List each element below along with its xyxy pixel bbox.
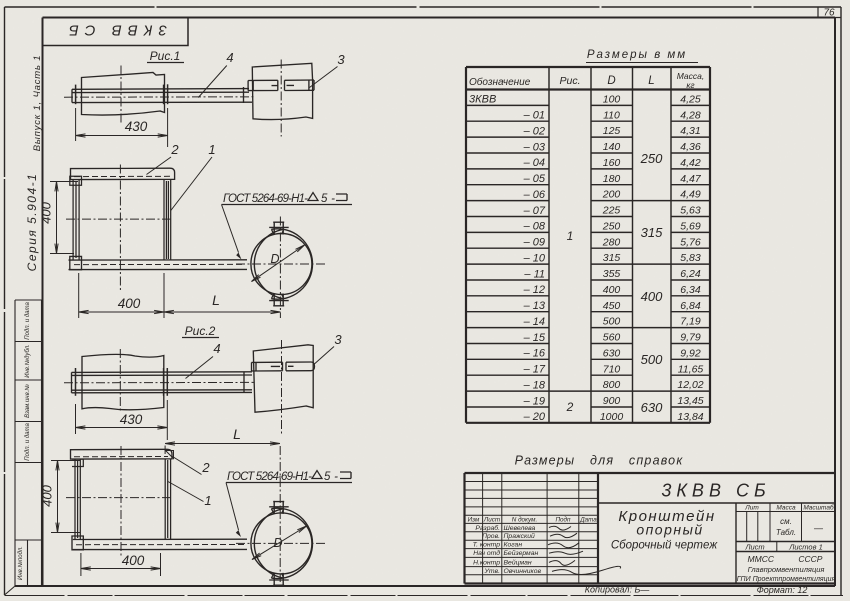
fig1 frame horizontal centerline (66, 218, 173, 220)
fig1 dimension 430 (76, 108, 168, 147)
table grid (466, 67, 710, 423)
fig2 frame vertical centerline (120, 446, 122, 556)
table column designations (469, 94, 546, 424)
fig1 label 3 (310, 52, 346, 88)
top stamp box 3KVV SB (rotated) (43, 18, 189, 46)
fig2 left plate centerline (119, 349, 121, 413)
fig1 diameter D dimension (252, 245, 305, 282)
title block name Kronshtein oporny (611, 508, 718, 552)
fig2 dimension L (165, 442, 280, 454)
fig2 circle horizontal centerline (236, 542, 325, 544)
fig2 rod item 4 (72, 368, 253, 396)
fig1 weld callout GOST 5264 (222, 193, 353, 260)
fig1 label 1 (171, 142, 216, 211)
fig2 diameter D dimension (252, 526, 307, 560)
fig1 frame left strip (70, 176, 82, 260)
fig2 frame bottom bar (72, 536, 247, 550)
fig1 rod centerline (64, 96, 256, 98)
page number box 76 (818, 7, 841, 19)
table column Ris values (566, 229, 574, 414)
fig2 left wall plate (82, 354, 164, 409)
title block right section grid (736, 503, 835, 584)
fig2 frame top plate item 2 (71, 449, 173, 459)
fig2 circle vertical centerline (279, 446, 281, 582)
fig1 frame vertical centerline (119, 165, 121, 292)
figure 2 caption Ris.2 (182, 324, 219, 338)
fig1 frame top plate item 2 (71, 168, 175, 179)
fig1 clamp item 3 (248, 80, 314, 91)
fig1 left plate centerline (120, 66, 122, 124)
fig1 right wall plate (252, 63, 312, 119)
fig1 label 4 (198, 50, 233, 98)
fig2 bottom dimension 400 (81, 553, 161, 576)
title block lit massa masshtab (744, 504, 834, 538)
fig2 right plate centerline (281, 340, 283, 436)
fig1 frame bottom bar (69, 256, 248, 269)
fig1 bottom dimensions 400 and L (79, 273, 281, 318)
left margin service boxes (5, 300, 42, 595)
fig2 rod centerline (64, 381, 256, 383)
fig1 circle horizontal centerline (236, 263, 325, 265)
fig2 label 1 (168, 482, 212, 509)
fig1 label 2 (147, 142, 180, 175)
fig2 dimension 430 (76, 400, 168, 440)
fig1 pipe clamp circle (251, 222, 313, 307)
fig2 label 2 (166, 451, 211, 476)
fig2 right wall plate (253, 345, 313, 412)
table column D values (600, 94, 624, 424)
fig2 frame right strut item 1 (165, 459, 170, 539)
fig1 circle vertical centerline (279, 217, 281, 319)
table column L merged values (640, 151, 663, 415)
fig2 label 3 (314, 332, 343, 365)
fig2 frame horizontal centerline (66, 497, 173, 499)
fig1 rod item 4 (72, 84, 252, 104)
fig1 vertical dimension 400 (50, 182, 78, 254)
table column mass values (677, 94, 703, 424)
title block doc number 3KVV SB (598, 481, 835, 504)
title block left grid (465, 473, 599, 584)
fig1 right plate centerline (280, 60, 282, 137)
fig2 weld callout GOST 5264 (226, 471, 352, 538)
fig2 vertical dimension 400 (51, 461, 80, 533)
table title Razmery v mm (586, 49, 698, 63)
fig1 left wall plate (82, 73, 165, 116)
title block organization MMSS SSSR (737, 554, 836, 583)
title block list listov (744, 543, 822, 552)
title block responsible names (473, 524, 542, 575)
table header (469, 71, 704, 90)
title block outer box (465, 473, 836, 584)
fig2 clamp item 3 (252, 362, 315, 371)
fig2 frame left strip (72, 459, 83, 539)
fig2 pipe clamp circle (251, 501, 313, 586)
title block signatures (548, 526, 621, 574)
title block header row Izm List (468, 516, 598, 524)
figure 1 caption Ris.1 (147, 49, 184, 63)
fig1 frame right strut item 1 (164, 180, 171, 261)
fig2 label 4 (186, 341, 221, 379)
